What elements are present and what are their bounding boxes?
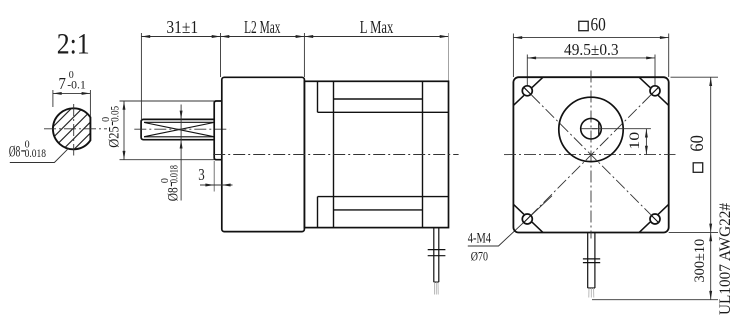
motor lead wire [428, 228, 446, 283]
screw BR [650, 214, 660, 224]
svg-text:L Max: L Max [360, 17, 394, 37]
leader + label Ø8 -0.018 (detail) [10, 149, 69, 163]
diagonal centerline TR-BL [532, 95, 651, 215]
svg-text:UL1007 AWG22#: UL1007 AWG22# [717, 203, 734, 315]
pilot boss Ø25 [214, 101, 222, 160]
corner chamfer TR [639, 77, 669, 105]
svg-text:3: 3 [198, 165, 205, 184]
motor front flange verticals [317, 81, 319, 112]
horizontal centerline [504, 154, 676, 156]
svg-text:49.5±0.3: 49.5±0.3 [564, 40, 619, 59]
motor front endbell vertical [333, 81, 335, 227]
svg-text:60: 60 [688, 135, 708, 152]
shaft flat bottom line [144, 136, 214, 138]
label 300±10 rotated [692, 239, 708, 283]
shaft X diagonal 2 [144, 123, 214, 137]
svg-text:10: 10 [627, 132, 643, 150]
right dimension column [671, 76, 719, 78]
extension line gearbox rear [303, 33, 305, 77]
extension line motor rear (light) [448, 33, 450, 81]
svg-text:0.018: 0.018 [166, 165, 180, 183]
motor rear endbell vertical [422, 81, 424, 227]
shaft X diagonal 1 [144, 123, 214, 137]
top chained dimension line [141, 36, 448, 38]
svg-text:L2 Max: L2 Max [244, 17, 281, 37]
stator top line [334, 98, 423, 100]
label UL1007 AWG22# rotated [717, 203, 734, 315]
svg-text:4-M4: 4-M4 [468, 231, 492, 247]
motor centerline [213, 154, 458, 156]
svg-text:Ø8: Ø8 [9, 144, 21, 161]
corner chamfer BR [639, 204, 669, 232]
Ø8 dimension (side view) [180, 105, 182, 201]
corner chamfer TL [513, 77, 543, 105]
dimension 7 -0.1 [53, 90, 91, 116]
shaft centerline [134, 128, 229, 130]
detail centerline horizontal [44, 128, 107, 130]
svg-text:7: 7 [59, 74, 67, 93]
dim 10 (shaft offset) [592, 128, 651, 130]
dimension arrows [141, 35, 150, 38]
extension line gearbox front [220, 33, 222, 77]
corner chamfer BL [513, 204, 543, 232]
dimension 3 (boss length) [213, 161, 215, 192]
shaft flat top line [144, 121, 214, 123]
upper tie-rod line [318, 111, 449, 113]
shaft circle [581, 118, 602, 139]
diagonal centerline TL-BR [532, 95, 651, 215]
extension line shaft end [140, 33, 142, 119]
Ø8 label rotated [160, 165, 182, 201]
svg-text:2:1: 2:1 [57, 27, 90, 60]
svg-text:0.018: 0.018 [25, 146, 46, 160]
screw TL [522, 86, 532, 96]
svg-text:-0.1: -0.1 [67, 79, 86, 91]
output shaft (with flat, X pattern) [141, 119, 214, 139]
svg-text:Ø8: Ø8 [165, 187, 181, 201]
svg-text:Ø70: Ø70 [471, 249, 488, 263]
front lead wire [583, 233, 600, 289]
screw TR [650, 86, 660, 96]
Ø25 label (rotated) [101, 106, 123, 148]
text 10 rotated [627, 132, 643, 150]
label square 60 rotated [688, 135, 708, 172]
svg-text:0.05: 0.05 [108, 106, 122, 122]
pilot boss circle [559, 97, 623, 161]
svg-text:300±10: 300±10 [692, 239, 708, 283]
Ø25 dimension [120, 101, 215, 160]
gearbox body [222, 77, 305, 231]
lower tie-rod line [318, 196, 449, 198]
svg-text:31±1: 31±1 [166, 17, 198, 37]
wire strands [434, 282, 438, 294]
screw BL [522, 214, 532, 224]
wire strands front [589, 288, 594, 298]
svg-text:60: 60 [591, 16, 606, 36]
detail centerline vertical [73, 104, 75, 156]
vertical centerline [590, 71, 592, 239]
shaft flat line [598, 122, 600, 135]
front square body [513, 77, 668, 232]
svg-text:Ø25: Ø25 [107, 126, 123, 148]
motor body outline [304, 81, 448, 227]
top dim square 60 [579, 21, 588, 30]
shaft center tick [581, 128, 597, 130]
stator bottom line [334, 209, 423, 211]
